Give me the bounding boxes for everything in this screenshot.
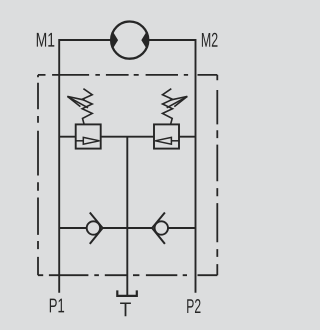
motor left wedge bbox=[111, 33, 117, 48]
check valve CV2 seat bbox=[152, 213, 165, 244]
wire: right relief stub bbox=[179, 136, 196, 138]
port label P2 bbox=[187, 299, 200, 313]
wire: left vertical M1/P1 line bbox=[58, 39, 60, 293]
relief valve V2 flow arrow bbox=[155, 137, 179, 144]
relief valve V2 adjustment arrow bbox=[167, 96, 188, 107]
wire: motor to M2 bbox=[148, 39, 195, 41]
relief valve V1 spring bbox=[82, 89, 92, 124]
port label T bbox=[120, 302, 131, 316]
check valve CV2 ball bbox=[155, 221, 168, 234]
relief valve V1 flow arrow bbox=[76, 137, 100, 144]
wire: top rail M1 to motor bbox=[59, 39, 111, 41]
wire: check line right segment bbox=[168, 227, 195, 229]
wire: check line middle segment bbox=[103, 227, 153, 229]
wire: center tank line bbox=[126, 137, 128, 295]
check valve CV1 seat bbox=[90, 213, 103, 244]
relief valve V1 body bbox=[76, 124, 101, 148]
wire: connector between relief valves bbox=[101, 136, 154, 138]
port label M1 bbox=[37, 33, 55, 47]
motor right wedge bbox=[142, 33, 148, 48]
enclosure dashed box left edge bbox=[37, 75, 39, 275]
wire: check line left segment bbox=[59, 227, 86, 229]
wire: right vertical M2/P2 line bbox=[195, 39, 197, 293]
port label M2 bbox=[202, 33, 218, 47]
enclosure dashed box bottom edge bbox=[38, 274, 217, 276]
enclosure dashed box right edge bbox=[216, 75, 218, 275]
tank symbol bbox=[117, 290, 137, 296]
relief valve V2 body bbox=[154, 124, 179, 148]
enclosure dashed box top edge bbox=[38, 74, 217, 76]
relief valve V1 adjustment arrow bbox=[67, 96, 88, 107]
wire: left relief stub bbox=[59, 136, 75, 138]
port label P1 bbox=[50, 299, 64, 313]
check valve CV1 ball bbox=[87, 221, 100, 234]
relief valve V2 spring bbox=[163, 89, 173, 124]
motor U1 (hydraulic motor circle) bbox=[111, 21, 148, 58]
